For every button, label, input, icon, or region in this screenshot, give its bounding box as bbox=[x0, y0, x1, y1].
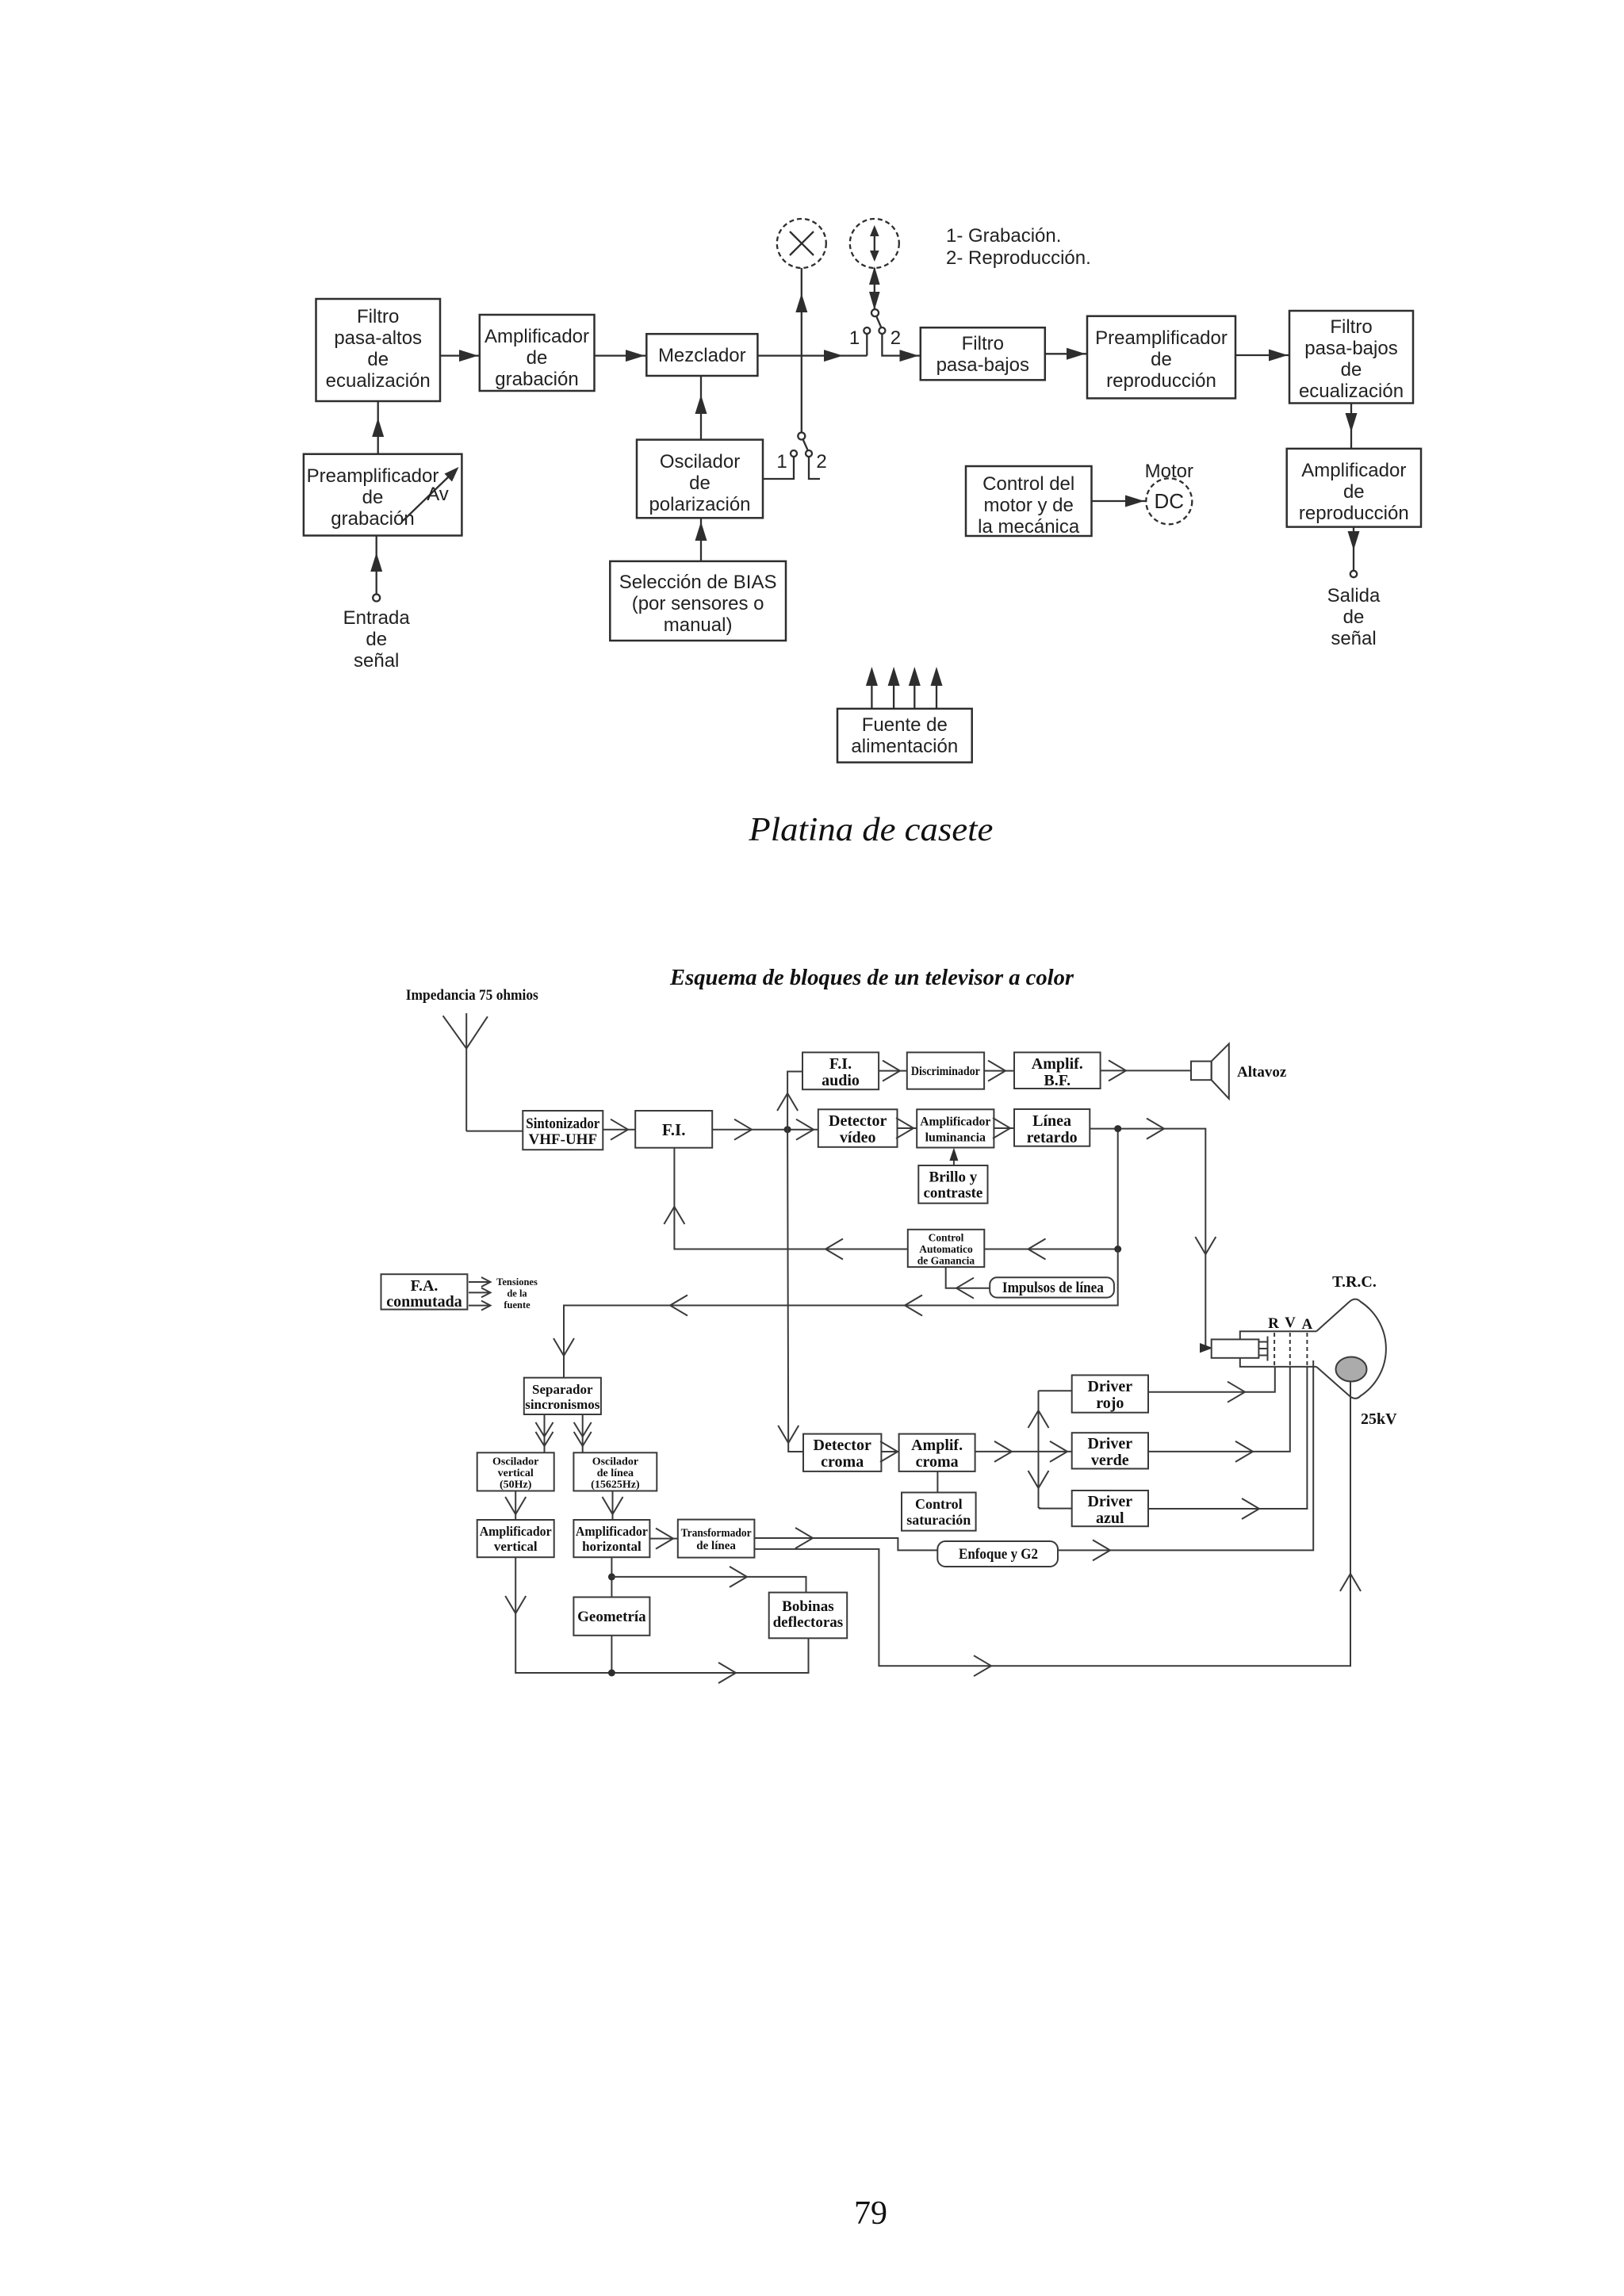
box: Separador sincronismos bbox=[524, 1378, 601, 1414]
wire: filtro pasa-altos to amplificador with arrow bbox=[440, 350, 480, 362]
svg-text:Av: Av bbox=[427, 484, 449, 505]
TRC anode spot bbox=[1336, 1357, 1367, 1382]
wire: oscilador de linea to amplificador horizontal with chevron bbox=[603, 1491, 623, 1521]
box: Filtro pasa-altos de ecualizacion bbox=[316, 299, 441, 401]
wire: oscilador output to lower switch contact 1 bbox=[763, 457, 794, 479]
wire: amplificador horizontal down to geometria with dot bbox=[611, 1557, 612, 1597]
wire: FI to junction to detector video with chevrons bbox=[712, 1119, 818, 1140]
TRC label bbox=[1332, 1273, 1377, 1291]
label 1 upper switch bbox=[849, 327, 860, 349]
wire: driver azul to TRC A pin with chevron bbox=[1148, 1367, 1307, 1519]
svg-text:Línearetardo: Línearetardo bbox=[1027, 1112, 1078, 1146]
box: Driver azul bbox=[1072, 1490, 1148, 1527]
box: Detector video bbox=[818, 1109, 898, 1147]
box: Amplificador vertical bbox=[477, 1520, 554, 1557]
label: Entrada de senal bbox=[343, 607, 411, 672]
labels R V A bbox=[1268, 1314, 1312, 1333]
junction dot linea retardo output bbox=[1114, 1125, 1121, 1132]
motor DC circle bbox=[1146, 478, 1192, 524]
wire: driver rojo to TRC R pin with chevron bbox=[1148, 1367, 1275, 1402]
wire: junction to bobinas deflectoras with chevron bbox=[611, 1567, 806, 1593]
wire: amplificador vertical down to deflection line with chevron bbox=[505, 1557, 808, 1683]
lower switch pole node bbox=[798, 433, 805, 440]
wire: sintonizador to FI with chevron bbox=[603, 1119, 635, 1140]
box: Preamplificador de grabacion bbox=[304, 454, 462, 536]
box: Brillo y contraste bbox=[918, 1165, 987, 1203]
svg-text:Control delmotor y dela mecáni: Control delmotor y dela mecánica bbox=[978, 473, 1080, 538]
label 2 upper switch bbox=[891, 327, 901, 349]
box: Linea retardo bbox=[1014, 1109, 1090, 1146]
legend: 1- Grabacion. 2- Reproduccion. bbox=[946, 225, 1091, 269]
box: Oscilador de polarizacion bbox=[637, 440, 763, 519]
wire: oscilador to mezclador with arrow bbox=[695, 376, 707, 440]
box: Amplificador de reproduccion bbox=[1287, 449, 1421, 527]
svg-text:Platina de casete: Platina de casete bbox=[748, 812, 993, 848]
node: salida terminal bbox=[1350, 571, 1357, 577]
svg-text:SintonizadorVHF-UHF: SintonizadorVHF-UHF bbox=[526, 1115, 599, 1148]
label: Salida de senal bbox=[1327, 585, 1381, 649]
wire: amplificador horizontal to transformador with chevron bbox=[649, 1529, 677, 1549]
svg-text:Controlsaturación: Controlsaturación bbox=[906, 1496, 971, 1528]
box: Transformador de linea bbox=[678, 1520, 755, 1558]
wire: driver verde to TRC V pin with chevron bbox=[1148, 1367, 1290, 1462]
wire: record head to upper switch pole with double arrows bbox=[869, 266, 880, 310]
box: Bobinas deflectoras bbox=[769, 1593, 847, 1639]
wire: AGC bottom to impulsos with chevron pointing left bbox=[946, 1267, 990, 1299]
wire: geometria bottom to deflection line bbox=[611, 1636, 612, 1673]
wire: amplif BF to altavoz with chevron bbox=[1101, 1060, 1191, 1081]
svg-text:Detectorcroma: Detectorcroma bbox=[814, 1437, 871, 1471]
wire: separador to oscilador de linea with double chevron bbox=[574, 1414, 592, 1452]
wire: discriminador to amplif BF with chevron bbox=[984, 1061, 1014, 1081]
lower switch contact 1 bbox=[791, 450, 797, 457]
lower switch arm bbox=[803, 439, 808, 450]
caption: Platina de casete bbox=[748, 812, 993, 848]
box: Amplificador horizontal bbox=[573, 1520, 649, 1557]
svg-text:DC: DC bbox=[1155, 489, 1185, 513]
svg-text:Separadorsincronismos: Separadorsincronismos bbox=[525, 1382, 600, 1412]
svg-text:Amplificadorhorizontal: Amplificadorhorizontal bbox=[576, 1524, 648, 1554]
svg-text:1: 1 bbox=[849, 327, 860, 349]
box: Driver rojo bbox=[1072, 1376, 1148, 1413]
upper switch contact 1 bbox=[864, 327, 870, 334]
box: Amplificador luminancia bbox=[917, 1109, 994, 1147]
wire: branch to driver azul bbox=[1039, 1507, 1072, 1510]
svg-text:Bobinasdeflectoras: Bobinasdeflectoras bbox=[773, 1598, 844, 1631]
svg-text:Osciladorde línea(15625Hz): Osciladorde línea(15625Hz) bbox=[591, 1456, 640, 1491]
junction dot deflection line bbox=[608, 1670, 615, 1677]
box: Preamplificador de reproduccion bbox=[1087, 316, 1235, 399]
box: Geometria bbox=[573, 1598, 649, 1636]
wire: video junction down to detector croma with chevron bbox=[778, 1130, 803, 1452]
speaker altavoz bbox=[1191, 1044, 1229, 1099]
box: Oscilador de linea 15625Hz bbox=[573, 1452, 657, 1490]
wire: amplif croma to driver branch with chevrons bbox=[975, 1391, 1049, 1508]
erase head (circle with X) bbox=[777, 219, 826, 268]
box: Fuente de alimentacion bbox=[837, 709, 972, 763]
wire: antenna to sintonizador bbox=[466, 1131, 523, 1132]
svg-text:V: V bbox=[1285, 1314, 1296, 1331]
junction dot geometria top bbox=[608, 1573, 615, 1580]
wire: branch to driver verde with chevron bbox=[1039, 1441, 1072, 1462]
wire: entrada to preamplificador with arrow bbox=[370, 536, 382, 595]
svg-text:79: 79 bbox=[854, 2195, 887, 2232]
wire: branch to driver rojo bbox=[1039, 1390, 1072, 1391]
label: Impedancia 75 ohmios bbox=[406, 987, 538, 1004]
TRC funnel and screen bbox=[1316, 1299, 1386, 1399]
label: Motor bbox=[1145, 461, 1193, 482]
svg-text:Motor: Motor bbox=[1145, 461, 1193, 482]
wire: enfoque to TRC with chevron bbox=[1058, 1360, 1313, 1560]
TRC electron gun bbox=[1212, 1337, 1268, 1361]
wire: composite video line down-left to separador with chevrons bbox=[553, 1249, 1118, 1378]
wire: separador to oscilador vertical with double chevron bbox=[536, 1414, 553, 1452]
wire: preamplificador to filtro pasa-altos with arrow bbox=[372, 401, 384, 454]
box: F.I. audio bbox=[802, 1052, 879, 1089]
F.A. output arrows bbox=[469, 1277, 491, 1311]
wire: junction up to FI audio with chevron bbox=[777, 1072, 802, 1130]
svg-text:25kV: 25kV bbox=[1361, 1410, 1397, 1428]
wire: amplificador luminancia to linea retardo with chevron bbox=[993, 1118, 1014, 1138]
svg-text:Altavoz: Altavoz bbox=[1237, 1064, 1287, 1081]
wire: linea retardo junction to TRC gun with chevrons and arrow bbox=[1090, 1119, 1216, 1353]
junction dot video bbox=[784, 1126, 791, 1133]
upper switch contact 2 bbox=[879, 327, 885, 334]
svg-text:R: R bbox=[1268, 1315, 1279, 1332]
box: Impulsos de linea (rounded) bbox=[990, 1277, 1114, 1297]
record/play head (circle with double arrow) bbox=[850, 219, 899, 268]
box: Discriminador bbox=[907, 1052, 984, 1089]
wire: mezclador to switch contact 1 with arrow bbox=[757, 350, 867, 362]
svg-text:Fuente dealimentación: Fuente dealimentación bbox=[851, 714, 958, 757]
label: Tensiones de la fuente bbox=[496, 1276, 538, 1311]
wire: brillo y contraste up to amplificador luminancia with small arrow bbox=[949, 1148, 958, 1166]
box: F.I. bbox=[635, 1111, 712, 1148]
label 1 lower switch bbox=[776, 451, 787, 473]
wire: amplificador to mezclador with arrow bbox=[595, 350, 647, 362]
svg-text:Amplif.croma: Amplif.croma bbox=[911, 1437, 963, 1471]
box: Sintonizador VHF-UHF bbox=[523, 1111, 603, 1150]
svg-text:T.R.C.: T.R.C. bbox=[1332, 1273, 1377, 1291]
wire: amplif croma to control saturacion bbox=[936, 1471, 938, 1493]
wire: preamplificador reproduccion to filtro ecualizacion with arrow bbox=[1235, 350, 1289, 362]
upper switch pole node bbox=[871, 309, 879, 316]
wire: FI audio to discriminador with chevron bbox=[879, 1061, 907, 1081]
box: Control Automatico de Ganancia bbox=[908, 1230, 985, 1267]
box: Seleccion de BIAS bbox=[610, 561, 786, 641]
box: F.A. conmutada bbox=[381, 1274, 468, 1311]
svg-text:1: 1 bbox=[776, 451, 787, 473]
svg-text:2: 2 bbox=[816, 451, 826, 473]
wire: detector video to amplificador luminancia with chevron bbox=[896, 1118, 917, 1138]
box: Control saturacion bbox=[902, 1493, 976, 1531]
wire: amplificador reproduccion to salida node with arrow bbox=[1348, 527, 1360, 571]
upper switch arm bbox=[876, 316, 881, 327]
wire: transformador output 2 down (25kV line) bbox=[754, 1382, 1361, 1677]
fuente de alimentacion output arrows bbox=[866, 667, 943, 709]
wire: control del motor to DC motor with arrow bbox=[1092, 496, 1147, 507]
wire: transformador output 1 to enfoque with chevron bbox=[754, 1528, 937, 1550]
svg-text:Impedancia 75 ohmios: Impedancia 75 ohmios bbox=[406, 987, 538, 1004]
box: Control del motor y de la mecanica bbox=[966, 466, 1092, 538]
box: Mezclador bbox=[646, 334, 757, 376]
wire: erase head vertical line with up arrow bbox=[795, 268, 807, 433]
wire: video junction down to AGC dot and line to AGC right with chevron bbox=[984, 1129, 1117, 1260]
wire: lower switch contact 2 stub bbox=[809, 457, 820, 479]
svg-text:Discriminador: Discriminador bbox=[911, 1065, 980, 1078]
box: Filtro pasa-bajos de ecualizacion bbox=[1289, 311, 1413, 404]
box: Enfoque y G2 (rounded) bbox=[937, 1541, 1058, 1567]
box: Detector croma bbox=[803, 1434, 881, 1471]
wire: seleccion BIAS to oscilador with arrow bbox=[695, 518, 707, 561]
box: Filtro pasa-bajos bbox=[921, 327, 1045, 380]
label: Altavoz bbox=[1237, 1064, 1287, 1081]
box: Amplif. B.F. bbox=[1014, 1052, 1101, 1089]
wire: filtro ecualizacion down to amplificador reproduccion with arrow bbox=[1346, 404, 1358, 449]
title: Esquema de bloques de un televisor a color bbox=[669, 966, 1074, 990]
wire: AGC left to FI with chevrons bbox=[664, 1148, 907, 1260]
lower switch contact 2 bbox=[806, 450, 812, 457]
TRC R V A dashed pins bbox=[1274, 1333, 1307, 1366]
wire: upper switch contact 2 stub and line to filtro pasa-bajos with arrow bbox=[882, 334, 920, 362]
box: Driver verde bbox=[1072, 1433, 1148, 1469]
TRC neck bbox=[1240, 1331, 1316, 1367]
box: Oscilador vertical 50Hz bbox=[477, 1452, 554, 1490]
wire: detector croma to amplif croma with chevron bbox=[880, 1441, 899, 1462]
svg-text:Mezclador: Mezclador bbox=[658, 345, 746, 366]
svg-text:2- Reproducción.: 2- Reproducción. bbox=[946, 247, 1091, 269]
svg-text:Driververde: Driververde bbox=[1087, 1435, 1132, 1469]
junction dot AGC bbox=[1114, 1246, 1121, 1253]
box: Amplificador de grabacion bbox=[480, 315, 595, 391]
box: Amplif. croma bbox=[899, 1434, 975, 1471]
wire: upper switch contact 1 stub bbox=[866, 334, 868, 356]
node: entrada terminal bbox=[373, 595, 380, 602]
svg-text:Brillo ycontraste: Brillo ycontraste bbox=[923, 1169, 982, 1202]
wire: oscilador vertical to amplificador vertical with chevron bbox=[505, 1491, 526, 1521]
antenna bbox=[443, 1013, 488, 1131]
gain arrow Av inside preamplificador bbox=[403, 467, 459, 521]
svg-text:Enfoque y G2: Enfoque y G2 bbox=[959, 1546, 1038, 1563]
label: 25kV bbox=[1361, 1410, 1397, 1428]
label 2 lower switch bbox=[816, 451, 826, 473]
wire: filtro pasa-bajos to preamplificador reproduccion with arrow bbox=[1045, 348, 1087, 360]
svg-text:2: 2 bbox=[891, 327, 901, 349]
svg-text:F.I.: F.I. bbox=[662, 1120, 686, 1139]
svg-text:A: A bbox=[1302, 1316, 1313, 1333]
svg-text:Impulsos de línea: Impulsos de línea bbox=[1002, 1280, 1104, 1296]
svg-text:Esquema de bloques de un telev: Esquema de bloques de un televisor a col… bbox=[669, 966, 1074, 990]
svg-text:Geometría: Geometría bbox=[577, 1609, 646, 1625]
svg-text:1- Grabación.: 1- Grabación. bbox=[946, 225, 1061, 247]
